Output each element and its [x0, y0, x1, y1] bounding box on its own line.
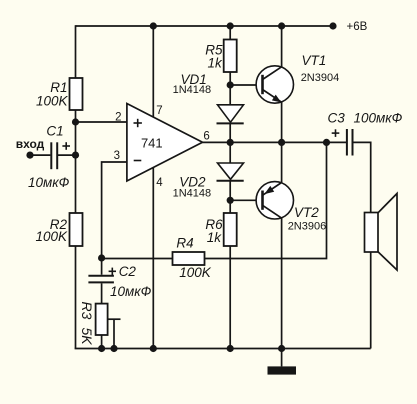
wire R1 bottom to node	[75, 110, 77, 122]
capacitor C3	[347, 129, 353, 156]
wire VT2 collector to ground	[281, 218, 283, 348]
svg-text:100K: 100K	[35, 229, 68, 244]
terminal input	[26, 152, 33, 159]
node R5 / VD1 / VT1 base	[227, 81, 234, 88]
node top rail R5	[227, 22, 234, 29]
wire C3 to speaker	[353, 142, 370, 212]
svg-text:2N3906: 2N3906	[288, 220, 327, 232]
wire pin 3	[102, 162, 127, 258]
node VD2 / R6 / VT2 base	[227, 197, 234, 204]
wire R5 to base node	[229, 72, 231, 85]
svg-text:C1: C1	[46, 123, 63, 138]
label C2 plus	[109, 268, 116, 275]
capacitor C2	[88, 276, 114, 283]
wire C1 to node	[58, 154, 76, 156]
wire node to C2	[101, 258, 103, 275]
wire VT1 base	[230, 84, 263, 86]
svg-text:1N4148: 1N4148	[173, 84, 212, 96]
wire speaker to ground rail	[370, 252, 372, 349]
svg-text:1k: 1k	[208, 56, 224, 71]
resistor R6	[224, 213, 237, 246]
svg-text:100мкФ: 100мкФ	[354, 111, 403, 126]
node C1 / R2	[72, 152, 79, 159]
svg-text:5K: 5K	[79, 328, 95, 346]
node output / R4 / C3	[323, 139, 330, 146]
svg-text:1N4148: 1N4148	[173, 188, 212, 200]
wire node to R6	[229, 200, 231, 213]
resistor R1	[70, 78, 83, 110]
wire output node row	[230, 141, 346, 143]
capacitor C1	[51, 142, 57, 169]
wire top rail to R5	[229, 26, 231, 40]
node output / diodes	[227, 139, 234, 146]
label op-amp plus input	[134, 119, 142, 127]
node top rail VT1	[278, 22, 285, 29]
svg-text:6: 6	[203, 130, 209, 142]
wire node to VD1	[229, 85, 231, 105]
wire C2 to R3	[101, 283, 103, 303]
node R6 ground	[227, 345, 234, 352]
node output	[278, 139, 285, 146]
resistor R3 trimmer	[96, 304, 108, 335]
svg-text:R3: R3	[79, 302, 95, 320]
svg-text:7: 7	[156, 105, 162, 117]
wire node to VD2	[229, 142, 231, 163]
op-amp U1 741	[127, 104, 203, 182]
speaker LS1	[365, 194, 398, 271]
svg-text:741: 741	[141, 135, 163, 150]
wire R3 to ground rail	[101, 335, 103, 349]
resistor R2	[70, 213, 83, 246]
svg-text:2N3904: 2N3904	[301, 72, 340, 84]
wire R6 to ground rail	[229, 246, 231, 349]
transistor VT2	[256, 182, 293, 219]
wire VT2 emitter from output node	[281, 142, 283, 182]
svg-text:100K: 100K	[179, 265, 212, 280]
wire pin 4 to ground rail	[152, 168, 154, 349]
wire R4 to output node	[205, 142, 327, 258]
wire pin 2	[76, 121, 128, 123]
terminal +6V	[329, 22, 336, 29]
node ground junction	[278, 345, 285, 352]
svg-text:1k: 1k	[207, 230, 223, 245]
svg-text:+6В: +6В	[347, 21, 368, 33]
node pin3 / C2 / R4	[98, 254, 105, 261]
diode VD1	[217, 105, 244, 143]
svg-text:4: 4	[156, 177, 163, 189]
svg-text:R4: R4	[176, 236, 193, 251]
ground	[268, 349, 297, 375]
wire +6V top rail	[76, 25, 334, 27]
svg-text:VT2: VT2	[294, 205, 319, 220]
wire pin 7 from top rail	[152, 26, 154, 117]
label C3 plus	[332, 129, 340, 137]
wire top rail to VT1 collector	[281, 26, 283, 67]
svg-text:10мкФ: 10мкФ	[28, 175, 70, 190]
wire node to R2	[75, 155, 77, 213]
svg-text:вход: вход	[16, 137, 45, 151]
wire VT1 emitter to output node	[281, 102, 283, 142]
svg-text:10мкФ: 10мкФ	[110, 284, 152, 299]
node top rail pin7	[150, 22, 157, 29]
node R3 tap ground	[110, 345, 117, 352]
svg-text:C3: C3	[328, 111, 346, 126]
svg-text:3: 3	[114, 150, 120, 162]
wire R4 row	[102, 258, 173, 260]
svg-text:C2: C2	[119, 264, 137, 279]
transistor VT1	[256, 66, 293, 103]
svg-text:2: 2	[115, 111, 121, 123]
wire VT2 base	[230, 199, 263, 201]
wire node to C1 node	[75, 122, 77, 155]
wire output pin 6	[203, 141, 231, 143]
wire R2 to ground rail	[75, 246, 77, 349]
wire ground rail	[75, 348, 371, 350]
label C1 plus	[62, 142, 70, 150]
resistor R4	[173, 252, 205, 265]
wire top rail to R1	[75, 25, 77, 78]
resistor R5	[224, 40, 237, 73]
node R3 ground	[98, 345, 105, 352]
node pin4 ground	[150, 345, 157, 352]
wire input to C1	[30, 154, 50, 156]
label op-amp minus input	[134, 160, 142, 162]
diode VD2	[217, 163, 244, 200]
node R1 / pin2	[72, 118, 79, 125]
svg-text:VT1: VT1	[302, 53, 327, 68]
svg-text:100K: 100K	[36, 93, 69, 108]
R3 wiper tap	[108, 319, 121, 348]
